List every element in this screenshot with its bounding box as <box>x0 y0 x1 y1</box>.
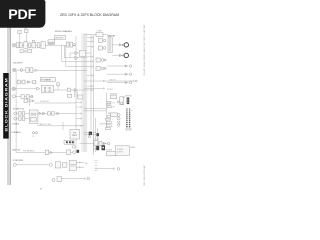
svg-text:ZED-10FX & ZED-22FX USER GUIDE: ZED-10FX & ZED-22FX USER GUIDE ISSUE 2 A… <box>143 25 146 77</box>
svg-text:2 TRACK: 2 TRACK <box>12 123 20 126</box>
svg-text:MIC INPUT: MIC INPUT <box>13 62 23 64</box>
svg-text:2 TRACK TO MIX: 2 TRACK TO MIX <box>38 123 52 126</box>
svg-text:PLAYBACK: PLAYBACK <box>12 131 22 134</box>
svg-text:MONITOR: MONITOR <box>100 124 108 126</box>
svg-text:BLOCK DIAGRAM: BLOCK DIAGRAM <box>5 78 9 132</box>
svg-text:ZED 10FX & 22FX BLOCK DIAGRAM: ZED 10FX & 22FX BLOCK DIAGRAM <box>60 13 119 17</box>
svg-text:IN: IN <box>33 136 35 138</box>
svg-text:2TK: 2TK <box>112 103 115 105</box>
svg-text:METERS: METERS <box>125 96 131 98</box>
svg-text:ST SUB OUT: ST SUB OUT <box>40 101 49 103</box>
svg-text:PHONES: PHONES <box>111 94 117 96</box>
svg-text:48V: 48V <box>24 28 27 30</box>
svg-text:ST RET: ST RET <box>107 89 113 91</box>
svg-text:PROC: PROC <box>72 135 78 137</box>
svg-text:FX OUT: FX OUT <box>94 139 100 141</box>
svg-text:ST RET: ST RET <box>97 31 103 33</box>
svg-text:2TK OUT: 2TK OUT <box>109 79 116 81</box>
svg-text:POWER: POWER <box>117 149 124 151</box>
svg-text:PDF: PDF <box>8 7 36 23</box>
svg-text:LINE INPUT: LINE INPUT <box>55 37 64 39</box>
svg-text:MIX: MIX <box>85 163 88 165</box>
svg-text:ST RETURN: ST RETURN <box>13 160 24 162</box>
svg-text:POWER: POWER <box>106 149 113 151</box>
svg-text:AP7538 ISSUE 2 ZED: AP7538 ISSUE 2 ZED <box>143 166 146 187</box>
svg-text:ST INPUT 3/4: ST INPUT 3/4 <box>13 108 24 110</box>
svg-text:AUX OUT: AUX OUT <box>13 149 22 152</box>
svg-text:SUPPLY: SUPPLY <box>117 152 124 154</box>
svg-text:OUT: OUT <box>112 107 115 109</box>
svg-text:MONO CHANNEL: MONO CHANNEL <box>55 30 73 33</box>
